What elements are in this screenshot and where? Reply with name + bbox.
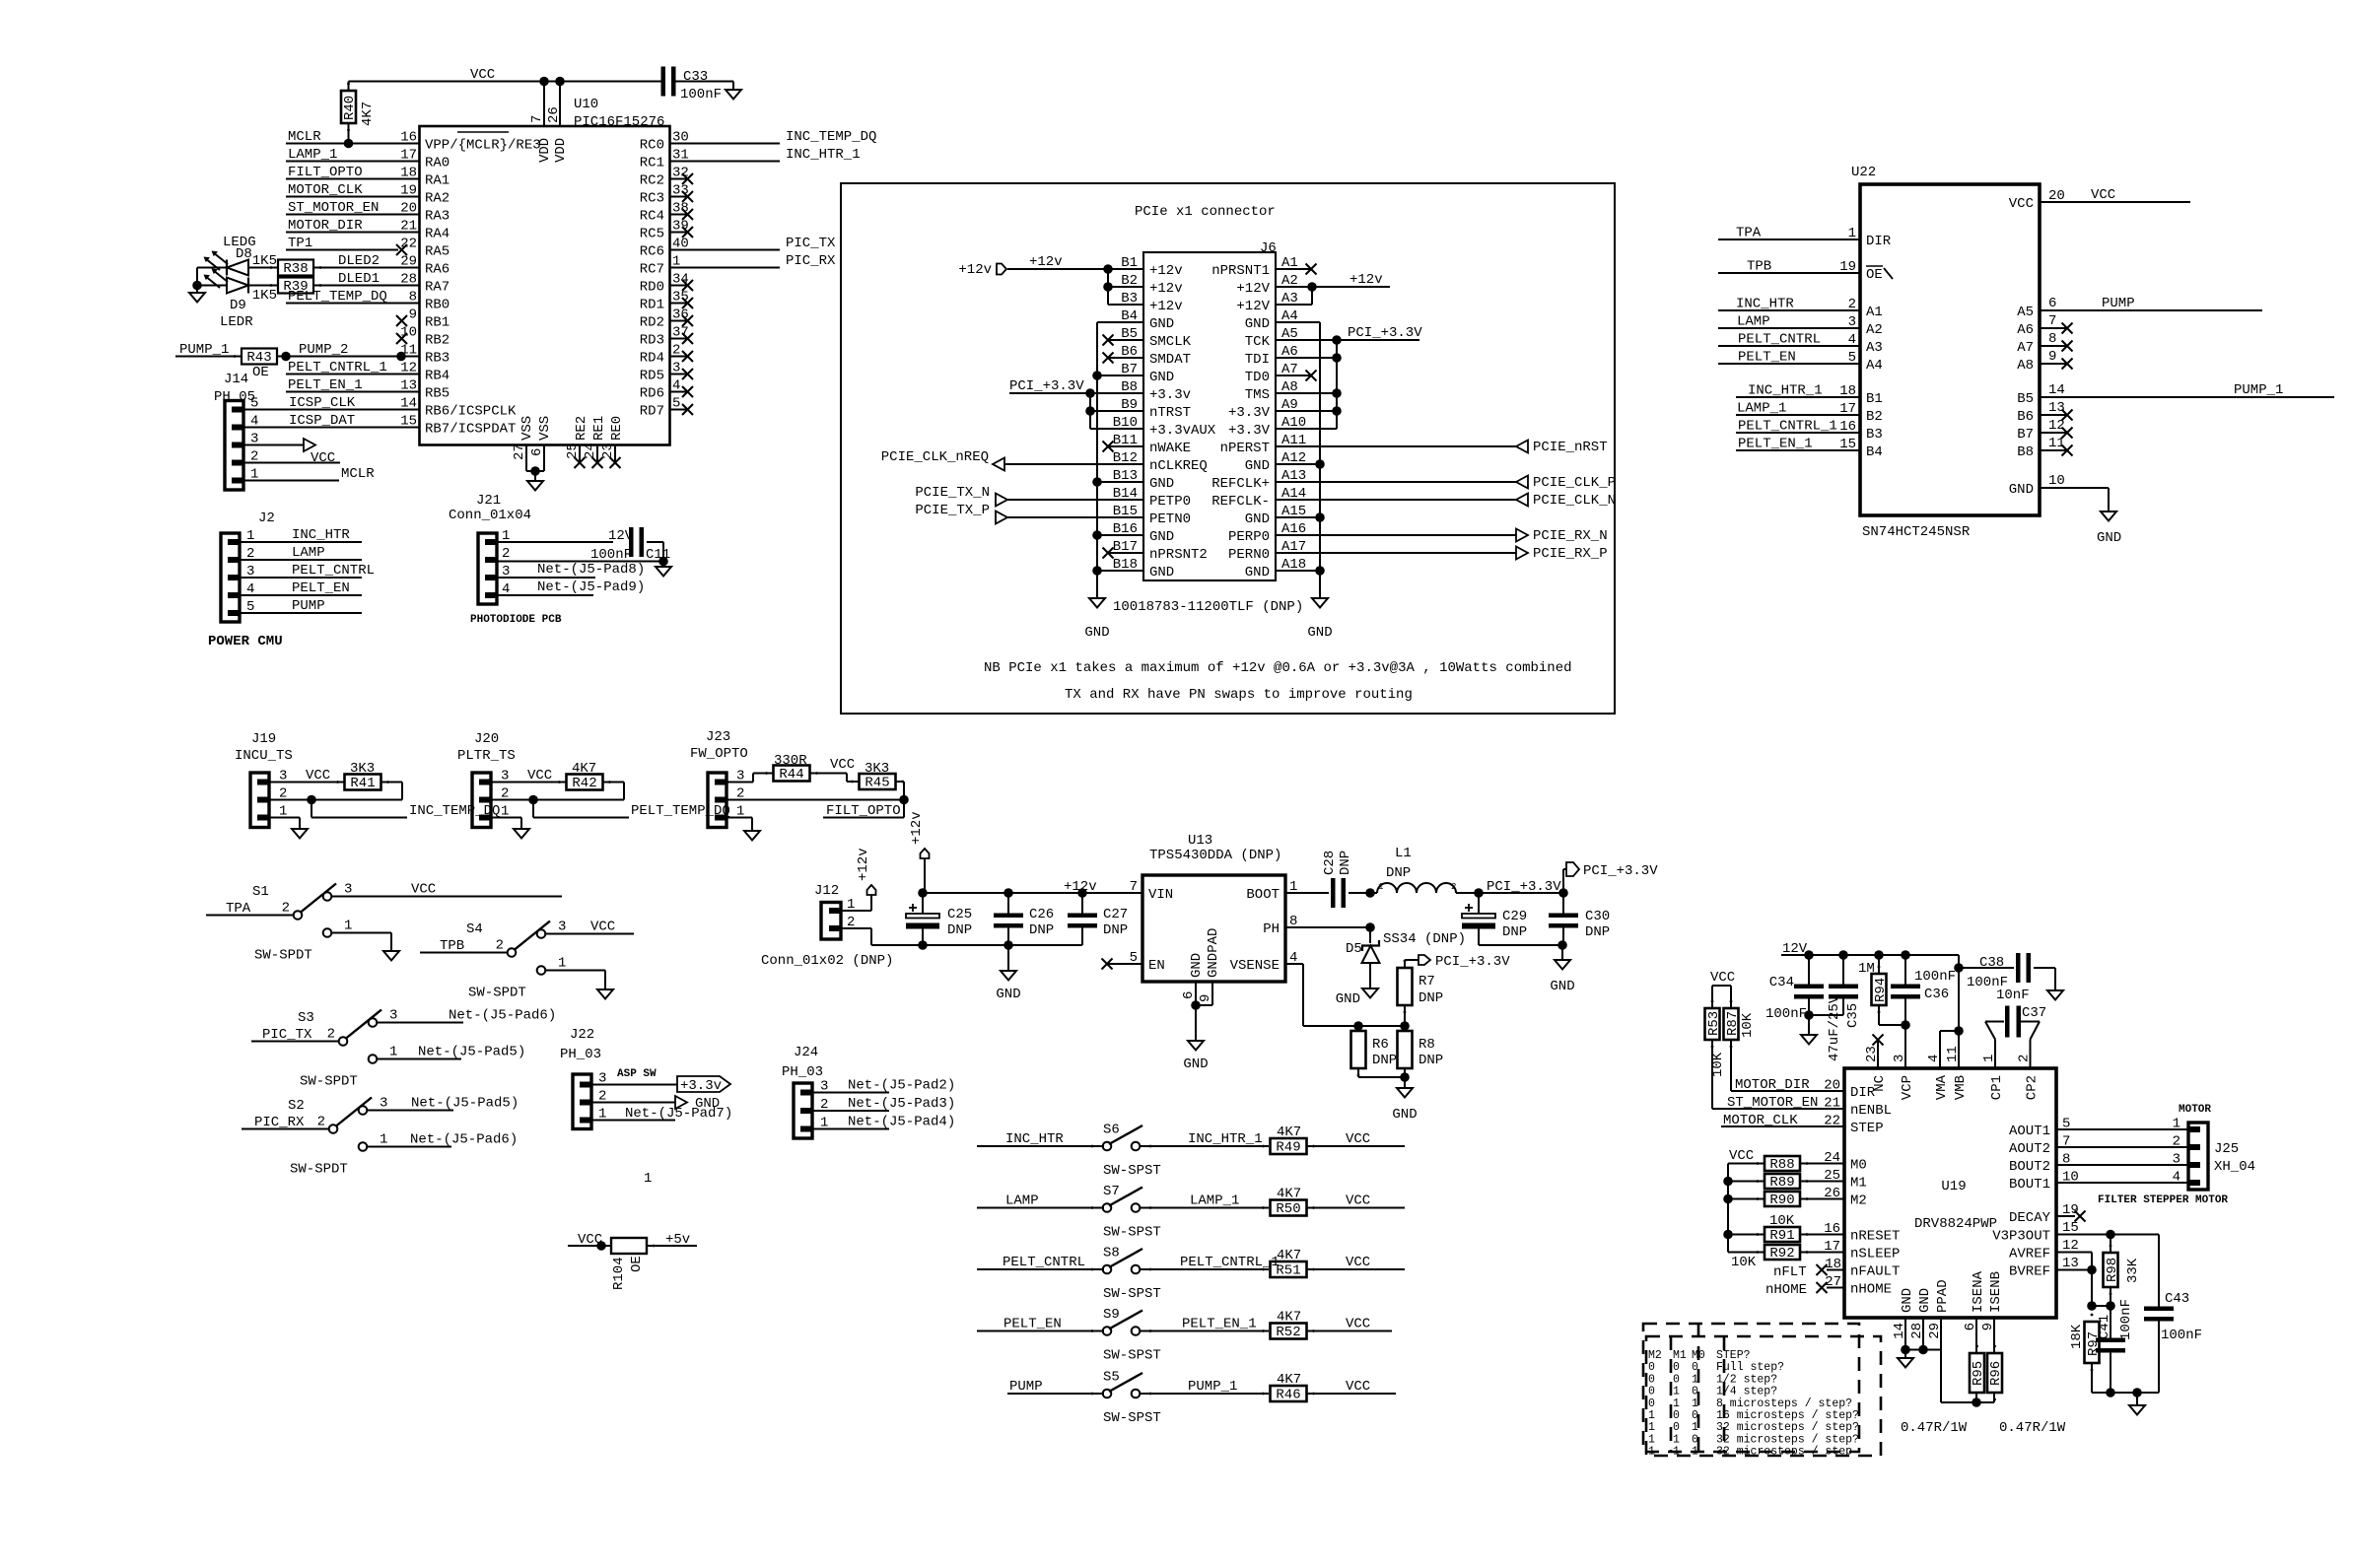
svg-text:RD5: RD5 [640, 368, 664, 383]
svg-text:1: 1 [1692, 1421, 1698, 1434]
svg-text:PCI_+3.3V: PCI_+3.3V [1009, 378, 1084, 394]
svg-text:nSLEEP: nSLEEP [1850, 1246, 1900, 1261]
svg-text:D8: D8 [236, 246, 252, 262]
svg-text:17: 17 [1839, 401, 1856, 417]
svg-text:POWER CMU: POWER CMU [208, 634, 283, 649]
svg-text:Net-(J5-Pad9): Net-(J5-Pad9) [537, 579, 645, 595]
svg-text:PCIe x1 connector: PCIe x1 connector [1135, 204, 1276, 220]
svg-text:VCC: VCC [1346, 1193, 1370, 1209]
svg-text:2: 2 [2017, 1055, 2033, 1062]
svg-text:ISENA: ISENA [1971, 1270, 1986, 1313]
svg-text:PCIE_nRST: PCIE_nRST [1533, 440, 1608, 455]
svg-text:RB5: RB5 [425, 385, 450, 401]
svg-text:VMB: VMB [1953, 1075, 1969, 1100]
svg-text:C41: C41 [2097, 1315, 2112, 1339]
svg-text:PLTR_TS: PLTR_TS [457, 748, 516, 764]
svg-text:PCIE_TX_N: PCIE_TX_N [915, 485, 990, 501]
svg-text:RE1: RE1 [591, 416, 607, 441]
svg-text:GND: GND [1392, 1107, 1417, 1123]
svg-text:PIC_TX: PIC_TX [262, 1027, 312, 1043]
svg-text:VCC: VCC [411, 882, 436, 898]
svg-text:4K7: 4K7 [1277, 1187, 1301, 1202]
svg-text:SMDAT: SMDAT [1149, 352, 1191, 368]
svg-text:5: 5 [1848, 350, 1856, 366]
svg-text:S8: S8 [1103, 1246, 1120, 1261]
svg-text:INC_HTR_1: INC_HTR_1 [786, 147, 861, 163]
svg-text:C35: C35 [1845, 1003, 1861, 1028]
svg-text:INC_HTR_1: INC_HTR_1 [1188, 1131, 1263, 1147]
svg-text:4: 4 [1926, 1055, 1942, 1062]
svg-text:DNP: DNP [1585, 924, 1610, 940]
svg-text:S7: S7 [1103, 1184, 1120, 1199]
svg-text:C30: C30 [1585, 909, 1610, 924]
svg-text:4K7: 4K7 [1277, 1310, 1301, 1326]
svg-text:TX and RX have PN swaps to imp: TX and RX have PN swaps to improve routi… [1065, 687, 1413, 703]
svg-text:100nF: 100nF [2118, 1299, 2134, 1340]
svg-text:1: 1 [1848, 226, 1856, 241]
svg-text:+12v: +12v [909, 811, 925, 845]
svg-text:32 microsteps / step?: 32 microsteps / step? [1716, 1421, 1859, 1434]
svg-text:DNP: DNP [1419, 1053, 1443, 1068]
svg-text:1K5: 1K5 [252, 288, 277, 304]
svg-text:LAMP: LAMP [292, 545, 325, 561]
svg-text:S1: S1 [252, 884, 269, 900]
svg-text:Net-(J5-Pad2): Net-(J5-Pad2) [848, 1078, 955, 1094]
svg-text:VCC: VCC [470, 67, 495, 83]
svg-text:SW-SPDT: SW-SPDT [254, 948, 312, 964]
svg-text:100nF: 100nF [2161, 1328, 2202, 1343]
svg-text:SW-SPST: SW-SPST [1103, 1410, 1161, 1426]
svg-text:B4: B4 [1866, 444, 1883, 460]
svg-text:VIN: VIN [1148, 887, 1173, 903]
svg-text:RA5: RA5 [425, 243, 450, 259]
svg-text:+12v: +12v [1149, 263, 1183, 279]
svg-text:PCIE_CLK_nREQ: PCIE_CLK_nREQ [881, 449, 989, 465]
svg-text:PCI_+3.3V: PCI_+3.3V [1435, 954, 1510, 970]
svg-text:RC6: RC6 [640, 243, 664, 259]
svg-text:3K3: 3K3 [865, 761, 889, 777]
svg-text:9: 9 [2048, 349, 2056, 365]
svg-text:RE2: RE2 [574, 416, 589, 441]
svg-text:LEDR: LEDR [220, 314, 253, 330]
svg-text:0: 0 [1648, 1398, 1655, 1410]
svg-text:9: 9 [1198, 994, 1213, 1002]
svg-text:1/2 step?: 1/2 step? [1716, 1373, 1777, 1386]
svg-text:20: 20 [1824, 1078, 1840, 1094]
svg-text:A7: A7 [2017, 340, 2034, 356]
svg-text:23: 23 [600, 443, 616, 459]
svg-text:LAMP: LAMP [1005, 1193, 1039, 1209]
svg-text:A6: A6 [2017, 322, 2034, 338]
svg-text:PH_03: PH_03 [560, 1047, 601, 1062]
svg-text:DIR: DIR [1850, 1085, 1876, 1101]
svg-text:TD0: TD0 [1245, 370, 1270, 385]
svg-text:+12v: +12v [1350, 272, 1383, 288]
svg-text:S9: S9 [1103, 1307, 1120, 1323]
svg-text:PH_05: PH_05 [214, 389, 255, 405]
svg-text:STEP?: STEP? [1716, 1349, 1751, 1362]
svg-text:8: 8 [2062, 1152, 2070, 1168]
svg-text:R104: R104 [611, 1257, 627, 1290]
svg-text:4K7: 4K7 [1277, 1372, 1301, 1388]
svg-text:GND: GND [1149, 476, 1174, 492]
svg-text:21: 21 [1824, 1096, 1840, 1112]
svg-text:M0: M0 [1692, 1349, 1705, 1362]
svg-text:R51: R51 [1276, 1263, 1300, 1279]
svg-text:RD1: RD1 [640, 297, 664, 312]
svg-text:GND: GND [2097, 530, 2121, 546]
svg-text:A2: A2 [1866, 322, 1883, 338]
svg-text:0: 0 [1648, 1386, 1655, 1398]
svg-text:18: 18 [1825, 1257, 1841, 1272]
svg-text:GND: GND [1149, 565, 1174, 580]
svg-text:5: 5 [1130, 950, 1138, 966]
svg-text:TCK: TCK [1245, 334, 1271, 350]
svg-text:R95: R95 [1971, 1361, 1986, 1386]
svg-text:REFCLK-: REFCLK- [1211, 494, 1270, 510]
svg-text:SW-SPST: SW-SPST [1103, 1225, 1161, 1241]
svg-text:TMS: TMS [1245, 387, 1270, 403]
svg-text:VDD: VDD [537, 138, 553, 163]
svg-text:32 microsteps / step: 32 microsteps / step [1716, 1446, 1852, 1459]
svg-text:2: 2 [282, 901, 290, 917]
svg-text:PH_03: PH_03 [782, 1064, 823, 1080]
svg-text:2: 2 [496, 938, 504, 954]
svg-text:Net-(J5-Pad3): Net-(J5-Pad3) [848, 1096, 955, 1112]
svg-text:REFCLK+: REFCLK+ [1211, 476, 1270, 492]
svg-text:32 microsteps / step?: 32 microsteps / step? [1716, 1433, 1859, 1446]
svg-text:+12v: +12v [1149, 299, 1183, 314]
svg-text:PETP0: PETP0 [1149, 494, 1191, 510]
svg-text:PELT_EN: PELT_EN [1003, 1317, 1062, 1332]
svg-text:GND: GND [1149, 370, 1174, 385]
svg-text:INC_TEMP_DQ: INC_TEMP_DQ [786, 129, 876, 145]
svg-text:Conn_01x04: Conn_01x04 [449, 508, 531, 523]
svg-text:GND: GND [1900, 1288, 1915, 1313]
svg-text:BVREF: BVREF [2009, 1263, 2050, 1279]
svg-text:C34: C34 [1769, 975, 1794, 990]
svg-text:0: 0 [1673, 1373, 1680, 1386]
svg-text:3: 3 [380, 1096, 387, 1112]
svg-text:OE: OE [1866, 267, 1883, 283]
svg-text:RB7/ICSPDAT: RB7/ICSPDAT [425, 421, 516, 437]
svg-text:Net-(J5-Pad6): Net-(J5-Pad6) [410, 1132, 518, 1148]
svg-text:3: 3 [1892, 1055, 1907, 1062]
svg-text:RD6: RD6 [640, 385, 664, 401]
svg-text:nFLT: nFLT [1773, 1264, 1807, 1280]
svg-text:B8: B8 [2017, 444, 2034, 460]
svg-text:Net-(J5-Pad5): Net-(J5-Pad5) [411, 1096, 519, 1112]
svg-text:2: 2 [1451, 882, 1456, 892]
svg-text:PUMP_1: PUMP_1 [1188, 1379, 1237, 1395]
svg-text:RD2: RD2 [640, 314, 664, 330]
svg-text:U10: U10 [574, 97, 598, 112]
svg-text:RC1: RC1 [640, 155, 664, 170]
svg-text:0.47R/1W: 0.47R/1W [1999, 1420, 2066, 1436]
svg-text:ST_MOTOR_EN: ST_MOTOR_EN [1727, 1095, 1818, 1111]
svg-text:R94: R94 [1873, 978, 1889, 1002]
svg-text:33K: 33K [2125, 1258, 2141, 1283]
svg-text:100nF: 100nF [1914, 969, 1956, 985]
svg-text:nCLKREQ: nCLKREQ [1149, 458, 1208, 474]
svg-text:A5: A5 [2017, 305, 2034, 320]
svg-text:+12v: +12v [1029, 254, 1063, 270]
svg-text:TDI: TDI [1245, 352, 1270, 368]
svg-text:2: 2 [2173, 1134, 2180, 1150]
svg-text:PELT_CNTRL_1: PELT_CNTRL_1 [1738, 419, 1837, 435]
svg-text:B2: B2 [1866, 409, 1883, 425]
svg-text:RB6/ICSPCLK: RB6/ICSPCLK [425, 403, 517, 419]
svg-text:C37: C37 [2022, 1005, 2046, 1021]
svg-text:B1: B1 [1866, 391, 1883, 407]
svg-text:0: 0 [1692, 1361, 1698, 1374]
svg-text:R53: R53 [1706, 1011, 1722, 1036]
svg-text:GND: GND [1245, 511, 1270, 527]
svg-text:PELT_CNTRL: PELT_CNTRL [292, 563, 375, 579]
svg-text:M1: M1 [1673, 1349, 1687, 1362]
svg-text:13: 13 [2062, 1256, 2079, 1271]
svg-text:7: 7 [2048, 313, 2056, 329]
svg-text:PHOTODIODE PCB: PHOTODIODE PCB [470, 614, 562, 626]
svg-text:C36: C36 [1924, 987, 1949, 1002]
svg-text:INC_HTR_1: INC_HTR_1 [1748, 383, 1823, 399]
svg-text:EN: EN [1148, 958, 1165, 974]
svg-text:1: 1 [1673, 1398, 1680, 1410]
svg-text:R40: R40 [342, 96, 358, 120]
svg-text:7: 7 [1130, 879, 1138, 895]
svg-text:24: 24 [583, 443, 598, 459]
svg-text:VCC: VCC [1346, 1255, 1370, 1270]
svg-text:PELT_CNTRL_1: PELT_CNTRL_1 [288, 360, 387, 375]
svg-text:R87: R87 [1725, 1011, 1741, 1036]
svg-text:MCLR: MCLR [288, 129, 321, 145]
svg-text:PUMP: PUMP [2102, 296, 2135, 311]
svg-text:DNP: DNP [1029, 922, 1054, 938]
svg-text:DECAY: DECAY [2009, 1210, 2051, 1226]
svg-text:C26: C26 [1029, 907, 1054, 922]
svg-text:ISENB: ISENB [1988, 1271, 2004, 1313]
svg-text:A8: A8 [2017, 358, 2034, 374]
svg-text:1: 1 [1648, 1409, 1655, 1422]
svg-text:nHOME: nHOME [1765, 1282, 1807, 1298]
svg-text:PELT_EN: PELT_EN [292, 580, 350, 596]
svg-text:TPA: TPA [1736, 226, 1762, 241]
svg-text:R41: R41 [350, 776, 375, 791]
svg-text:ICSP_CLK: ICSP_CLK [289, 395, 356, 411]
svg-text:C33: C33 [683, 69, 708, 85]
svg-text:100nF: 100nF [590, 547, 632, 563]
svg-text:RC2: RC2 [640, 172, 664, 188]
svg-text:1: 1 [380, 1132, 387, 1148]
svg-text:1: 1 [1673, 1433, 1680, 1446]
svg-text:16: 16 [1839, 419, 1856, 435]
svg-text:3: 3 [344, 882, 352, 898]
svg-text:B7: B7 [2017, 427, 2034, 443]
svg-text:GND: GND [1149, 316, 1174, 332]
svg-text:4: 4 [2173, 1170, 2180, 1186]
svg-text:PCIE_TX_P: PCIE_TX_P [915, 503, 990, 518]
svg-text:VCC: VCC [527, 768, 552, 784]
svg-text:RE0: RE0 [609, 416, 625, 441]
svg-text:LAMP: LAMP [1737, 314, 1770, 330]
svg-text:19: 19 [2062, 1202, 2079, 1218]
svg-text:1K5: 1K5 [252, 253, 277, 269]
svg-text:16: 16 [1824, 1221, 1840, 1237]
svg-text:VCP: VCP [1900, 1075, 1915, 1100]
svg-text:Net-(J5-Pad6): Net-(J5-Pad6) [449, 1008, 556, 1024]
svg-text:MOTOR_DIR: MOTOR_DIR [1735, 1077, 1810, 1093]
svg-text:18: 18 [1839, 383, 1856, 399]
svg-text:19: 19 [1839, 259, 1856, 275]
svg-text:OE: OE [252, 365, 269, 380]
svg-text:RA1: RA1 [425, 172, 450, 188]
svg-text:22: 22 [1824, 1114, 1840, 1129]
svg-text:+3.3vAUX: +3.3vAUX [1149, 423, 1216, 439]
svg-text:RC0: RC0 [640, 137, 664, 153]
svg-text:23: 23 [1864, 1046, 1880, 1062]
svg-text:14: 14 [2048, 382, 2065, 398]
svg-text:PELT_CNTRL: PELT_CNTRL [1003, 1255, 1085, 1270]
svg-text:26: 26 [546, 106, 562, 123]
svg-text:U13: U13 [1188, 833, 1212, 849]
svg-text:VCC: VCC [1729, 1148, 1754, 1164]
svg-text:11: 11 [2048, 436, 2065, 451]
svg-text:PELT_CNTRL: PELT_CNTRL [1738, 332, 1821, 348]
svg-text:TPB: TPB [1747, 259, 1771, 275]
svg-text:13: 13 [2048, 400, 2065, 416]
svg-text:GND: GND [2009, 482, 2034, 498]
svg-text:VCC: VCC [830, 757, 855, 773]
svg-text:7: 7 [2062, 1134, 2070, 1150]
svg-text:R38: R38 [283, 261, 308, 277]
svg-text:M1: M1 [1850, 1175, 1867, 1191]
svg-text:C27: C27 [1103, 907, 1128, 922]
svg-text:12: 12 [2048, 418, 2065, 434]
svg-text:VCC: VCC [1346, 1131, 1370, 1147]
svg-text:25: 25 [565, 443, 581, 459]
svg-text:PELT_EN: PELT_EN [1738, 350, 1796, 366]
svg-text:+12v: +12v [1149, 281, 1183, 297]
svg-text:C29: C29 [1502, 909, 1527, 924]
svg-text:DIR: DIR [1866, 234, 1892, 249]
svg-text:BOUT2: BOUT2 [2009, 1159, 2050, 1175]
svg-text:1: 1 [2173, 1117, 2180, 1132]
svg-text:VCC: VCC [311, 450, 335, 466]
svg-text:J14: J14 [224, 372, 248, 387]
svg-text:26: 26 [1824, 1186, 1840, 1201]
svg-text:1: 1 [558, 956, 566, 972]
svg-text:VMA: VMA [1934, 1074, 1950, 1100]
svg-text:A4: A4 [1866, 358, 1883, 374]
svg-text:15: 15 [1839, 437, 1856, 452]
svg-text:1: 1 [1692, 1373, 1698, 1386]
svg-text:10nF: 10nF [1996, 988, 2030, 1003]
svg-text:CP2: CP2 [2024, 1075, 2040, 1100]
svg-text:VSS: VSS [537, 416, 553, 441]
svg-text:SW-SPDT: SW-SPDT [290, 1162, 348, 1178]
svg-text:INC_HTR: INC_HTR [292, 527, 350, 543]
svg-text:PUMP: PUMP [292, 598, 325, 614]
svg-text:6: 6 [2048, 296, 2056, 311]
svg-text:+5v: +5v [665, 1232, 690, 1248]
svg-text:10: 10 [2062, 1170, 2079, 1186]
svg-text:PCIE_RX_N: PCIE_RX_N [1533, 528, 1608, 544]
svg-text:CP1: CP1 [1989, 1075, 2005, 1100]
svg-text:J2: J2 [258, 511, 275, 526]
svg-text:1: 1 [1378, 882, 1383, 892]
svg-text:MOTOR_CLK: MOTOR_CLK [1723, 1113, 1798, 1128]
svg-text:VDD: VDD [553, 138, 569, 163]
svg-text:4K7: 4K7 [572, 761, 596, 777]
svg-text:nPERST: nPERST [1220, 441, 1270, 456]
svg-text:GNDPAD: GNDPAD [1206, 928, 1221, 978]
svg-text:FILT_OPTO: FILT_OPTO [288, 165, 363, 180]
svg-text:VSS: VSS [519, 416, 535, 441]
svg-text:PIC16F15276: PIC16F15276 [574, 114, 664, 130]
svg-text:0: 0 [1692, 1433, 1698, 1446]
svg-text:LAMP_1: LAMP_1 [1190, 1193, 1239, 1209]
svg-text:J24: J24 [794, 1045, 818, 1060]
svg-text:RB4: RB4 [425, 368, 450, 383]
svg-text:D5: D5 [1346, 941, 1362, 957]
svg-text:PELT_EN_1: PELT_EN_1 [1182, 1317, 1257, 1332]
svg-text:100nF: 100nF [680, 87, 722, 102]
svg-text:M2: M2 [1648, 1349, 1662, 1362]
svg-text:PUMP: PUMP [1009, 1379, 1043, 1395]
svg-text:SW-SPDT: SW-SPDT [468, 986, 526, 1001]
svg-text:0: 0 [1692, 1409, 1698, 1422]
svg-text:2: 2 [317, 1115, 325, 1130]
svg-text:GND: GND [1245, 316, 1270, 332]
svg-text:GND: GND [1307, 625, 1332, 641]
svg-text:8: 8 [2048, 331, 2056, 347]
svg-text:V3P3OUT: V3P3OUT [1992, 1228, 2050, 1244]
svg-text:VCC: VCC [1346, 1379, 1370, 1395]
svg-text:L1: L1 [1395, 846, 1412, 861]
svg-text:MCLR: MCLR [341, 466, 375, 482]
svg-text:RD7: RD7 [640, 403, 664, 419]
svg-text:FW_OPTO: FW_OPTO [690, 746, 748, 762]
svg-text:DNP: DNP [1338, 851, 1353, 875]
svg-text:DNP: DNP [1372, 1053, 1397, 1068]
svg-text:FILT_OPTO: FILT_OPTO [826, 803, 901, 819]
svg-text:27: 27 [1825, 1274, 1841, 1290]
svg-text:5: 5 [2062, 1117, 2070, 1132]
svg-text:24: 24 [1824, 1150, 1840, 1166]
svg-text:VPP/{MCLR}/RE3: VPP/{MCLR}/RE3 [425, 137, 541, 153]
svg-text:AOUT2: AOUT2 [2009, 1141, 2050, 1157]
svg-text:nWAKE: nWAKE [1149, 441, 1191, 456]
svg-text:1: 1 [1673, 1446, 1680, 1459]
svg-text:R98: R98 [2105, 1258, 2120, 1282]
svg-text:0: 0 [1692, 1386, 1698, 1398]
svg-text:+12V: +12V [1236, 281, 1270, 297]
svg-text:0: 0 [1648, 1361, 1655, 1374]
svg-text:TPA: TPA [226, 901, 251, 917]
svg-text:3K3: 3K3 [350, 761, 375, 777]
svg-text:R88: R88 [1769, 1157, 1794, 1173]
svg-text:VCC: VCC [2091, 187, 2115, 203]
svg-text:Net-(J5-Pad4): Net-(J5-Pad4) [848, 1115, 955, 1130]
svg-text:+3.3V: +3.3V [1228, 405, 1271, 421]
svg-text:M0: M0 [1850, 1157, 1867, 1173]
svg-text:Conn_01x02 (DNP): Conn_01x02 (DNP) [761, 953, 893, 969]
svg-text:VSENSE: VSENSE [1230, 958, 1280, 974]
svg-text:R89: R89 [1769, 1175, 1794, 1191]
svg-text:1: 1 [1692, 1398, 1698, 1410]
svg-text:2: 2 [327, 1027, 335, 1043]
svg-text:C43: C43 [2165, 1291, 2189, 1307]
